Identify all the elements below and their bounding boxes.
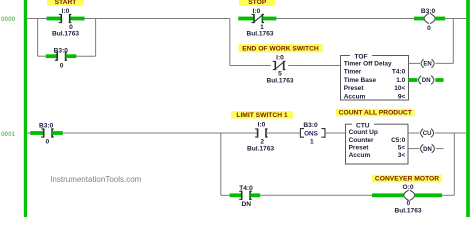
green segment left of CONVEYER MOTOR coil bbox=[372, 193, 404, 197]
green segment right of T4:0 contact bbox=[250, 193, 260, 197]
output DN of CTU counter bbox=[421, 144, 435, 153]
green segment right of B3:0 coil bbox=[435, 17, 445, 21]
svg-text:10<: 10< bbox=[394, 85, 405, 92]
svg-text:Bul.1763: Bul.1763 bbox=[247, 146, 274, 153]
green segment right of START contact bbox=[70, 17, 84, 21]
svg-text:Preset: Preset bbox=[349, 144, 370, 151]
svg-text:1.0: 1.0 bbox=[396, 77, 405, 84]
green segment right of B3:0 contact bbox=[66, 54, 77, 58]
label COUNT ALL PRODUCT bbox=[336, 109, 415, 117]
svg-text:DN: DN bbox=[423, 147, 432, 153]
wire: LIMIT SWITCH 1 contact to ONS bbox=[266, 132, 300, 134]
svg-text:COUNT ALL PRODUCT: COUNT ALL PRODUCT bbox=[339, 110, 413, 117]
svg-text:B3:0: B3:0 bbox=[303, 122, 318, 129]
svg-text:Bul.1763: Bul.1763 bbox=[246, 31, 273, 38]
svg-text:9<: 9< bbox=[398, 93, 406, 100]
svg-text:Bul.1763: Bul.1763 bbox=[394, 207, 421, 214]
svg-text:Time Base: Time Base bbox=[344, 77, 377, 84]
svg-text:0001: 0001 bbox=[1, 131, 16, 138]
wire: B3:0 contact to branch close bbox=[76, 55, 95, 57]
svg-text:0: 0 bbox=[427, 25, 431, 32]
svg-text:0: 0 bbox=[406, 200, 410, 207]
svg-text:B3:0: B3:0 bbox=[39, 122, 54, 129]
contact END OF WORK SWITCH I:0/5 (XIO) bbox=[273, 61, 286, 70]
wire: left rail to START branch bbox=[27, 18, 47, 20]
green segment right of TOF DN output bbox=[435, 78, 443, 82]
contact START I:0/0 (XIC) bbox=[59, 14, 72, 23]
svg-text:ONS: ONS bbox=[304, 131, 319, 138]
svg-text:START: START bbox=[55, 0, 78, 6]
timer block TOF T4:0 bbox=[341, 52, 409, 100]
green segment left of B3:0 coil bbox=[414, 17, 424, 21]
one-shot ONS B3:0/1 bbox=[300, 122, 325, 146]
green segment left of STOP contact bbox=[238, 17, 254, 21]
svg-text:Accum: Accum bbox=[344, 93, 366, 100]
svg-text:Bul.1763: Bul.1763 bbox=[266, 78, 293, 85]
wire: branch 1 left vertical bbox=[37, 19, 39, 57]
svg-text:5<: 5< bbox=[398, 144, 406, 151]
svg-text:DN: DN bbox=[422, 78, 431, 84]
svg-text:END OF WORK SWITCH: END OF WORK SWITCH bbox=[242, 46, 319, 53]
wire: left rail to B3:0 contact rung 0001 bbox=[27, 132, 31, 134]
green segment right of CONVEYER MOTOR coil bbox=[415, 193, 442, 197]
wire: EN output to rung bbox=[436, 62, 454, 64]
contact T4:0/DN (XIC) bbox=[239, 191, 252, 200]
wire: START contact to branch close bbox=[85, 18, 96, 20]
wire: branch 1 right vertical bbox=[95, 19, 97, 57]
svg-text:STOP: STOP bbox=[248, 0, 267, 6]
svg-text:Count Up: Count Up bbox=[349, 129, 378, 136]
output DN of TOF timer bbox=[419, 76, 434, 85]
svg-text:LIMIT SWITCH 1: LIMIT SWITCH 1 bbox=[236, 112, 288, 119]
wire: CONVEYER MOTOR coil to branch close bbox=[442, 194, 454, 196]
wire: rung 0001 branch left vertical bbox=[220, 133, 222, 195]
green segment left of START contact bbox=[47, 17, 61, 21]
svg-text:C5:0: C5:0 bbox=[391, 137, 405, 144]
contact B3:0/0 rung 0001 (XIC) bbox=[41, 128, 54, 137]
svg-text:I:0: I:0 bbox=[62, 8, 70, 15]
svg-text:CONVEYER MOTOR: CONVEYER MOTOR bbox=[375, 176, 439, 183]
coil CONVEYER MOTOR O:0/0 (OTE) bbox=[404, 190, 415, 200]
green segment left of TOF DN output bbox=[409, 78, 418, 82]
svg-text:Bul.1763: Bul.1763 bbox=[52, 31, 79, 38]
green segment right of STOP contact bbox=[263, 17, 277, 21]
wire: T4:0 contact to CONVEYER MOTOR coil bbox=[260, 194, 372, 196]
contact LIMIT SWITCH 1 I:0/2 (XIC) bbox=[255, 128, 268, 137]
wire: stub right of CTU DN output bbox=[436, 148, 444, 150]
svg-text:5: 5 bbox=[278, 71, 282, 78]
svg-text:1: 1 bbox=[310, 139, 314, 146]
green segment left of B3:0 contact rung 0001 bbox=[30, 131, 43, 135]
wire: CTU block to DN output bbox=[408, 148, 420, 150]
wire: branch 2 to END OF WORK SWITCH contact bbox=[230, 65, 271, 67]
svg-text:Timer Off Delay: Timer Off Delay bbox=[344, 60, 392, 67]
green segment left of B3:0 contact bbox=[46, 54, 57, 58]
svg-text:I:0: I:0 bbox=[258, 121, 266, 128]
wire: B3:0 contact to branch bbox=[63, 132, 221, 134]
svg-text:0000: 0000 bbox=[1, 16, 16, 23]
wire: rung 0001 branch right vertical bbox=[453, 133, 455, 195]
svg-text:Counter: Counter bbox=[349, 137, 374, 144]
svg-text:InstrumentationTools.com: InstrumentationTools.com bbox=[50, 175, 141, 184]
svg-text:Accum: Accum bbox=[349, 152, 371, 159]
output CU of CTU counter bbox=[421, 129, 434, 138]
coil B3:0/0 (OTE) bbox=[424, 13, 435, 23]
wire: TOF block to EN output bbox=[409, 62, 421, 64]
wire: EN output vertical to rung 0000 bbox=[452, 19, 454, 64]
wire: branch to LIMIT SWITCH 1 contact bbox=[221, 132, 258, 134]
right power rail bbox=[466, 0, 470, 217]
wire: branch close to right rail bbox=[454, 132, 466, 134]
green segment left of T4:0 contact bbox=[230, 193, 242, 197]
label START bbox=[47, 0, 84, 6]
label STOP bbox=[239, 0, 276, 6]
contact B3:0/0 seal-in (XIC) bbox=[55, 52, 68, 61]
svg-text:2: 2 bbox=[260, 139, 264, 146]
svg-text:0: 0 bbox=[45, 139, 49, 146]
svg-text:I:0: I:0 bbox=[276, 55, 284, 62]
label END OF WORK SWITCH bbox=[239, 44, 323, 53]
green segment right of B3:0 contact rung 0001 bbox=[52, 131, 63, 135]
wire: B3:0 coil to right rail bbox=[445, 18, 466, 20]
left power rail bbox=[24, 0, 27, 217]
svg-text:3<: 3< bbox=[398, 152, 406, 159]
wire: branch 2 left vertical bbox=[229, 19, 231, 66]
counter block CTU C5:0 bbox=[346, 121, 409, 164]
wire: END OF WORK SWITCH contact to TOF block bbox=[288, 65, 340, 67]
svg-text:CU: CU bbox=[423, 131, 432, 137]
wire: CU output to branch close bbox=[435, 132, 454, 134]
output EN of TOF timer bbox=[421, 59, 434, 68]
wire: branch 1 to branch 2 bbox=[96, 18, 230, 20]
wire: CTU block to CU output bbox=[408, 132, 420, 134]
wire: ONS to CTU block bbox=[325, 132, 346, 134]
label LIMIT SWITCH 1 bbox=[231, 111, 293, 119]
svg-text:Preset: Preset bbox=[344, 85, 365, 92]
svg-text:T4:0: T4:0 bbox=[392, 69, 406, 76]
svg-text:EN: EN bbox=[423, 62, 431, 68]
wire: branch to B3:0 contact bbox=[38, 55, 46, 57]
svg-text:0: 0 bbox=[60, 63, 64, 70]
wire: branch to T4:0 contact bbox=[221, 194, 230, 196]
contact STOP I:0/1 (XIO normally-closed) bbox=[252, 14, 265, 23]
svg-text:DN: DN bbox=[242, 201, 252, 208]
wire: STOP contact to B3:0 coil bbox=[276, 18, 414, 20]
svg-text:Timer: Timer bbox=[344, 69, 362, 76]
label CONVEYER MOTOR bbox=[372, 175, 442, 183]
